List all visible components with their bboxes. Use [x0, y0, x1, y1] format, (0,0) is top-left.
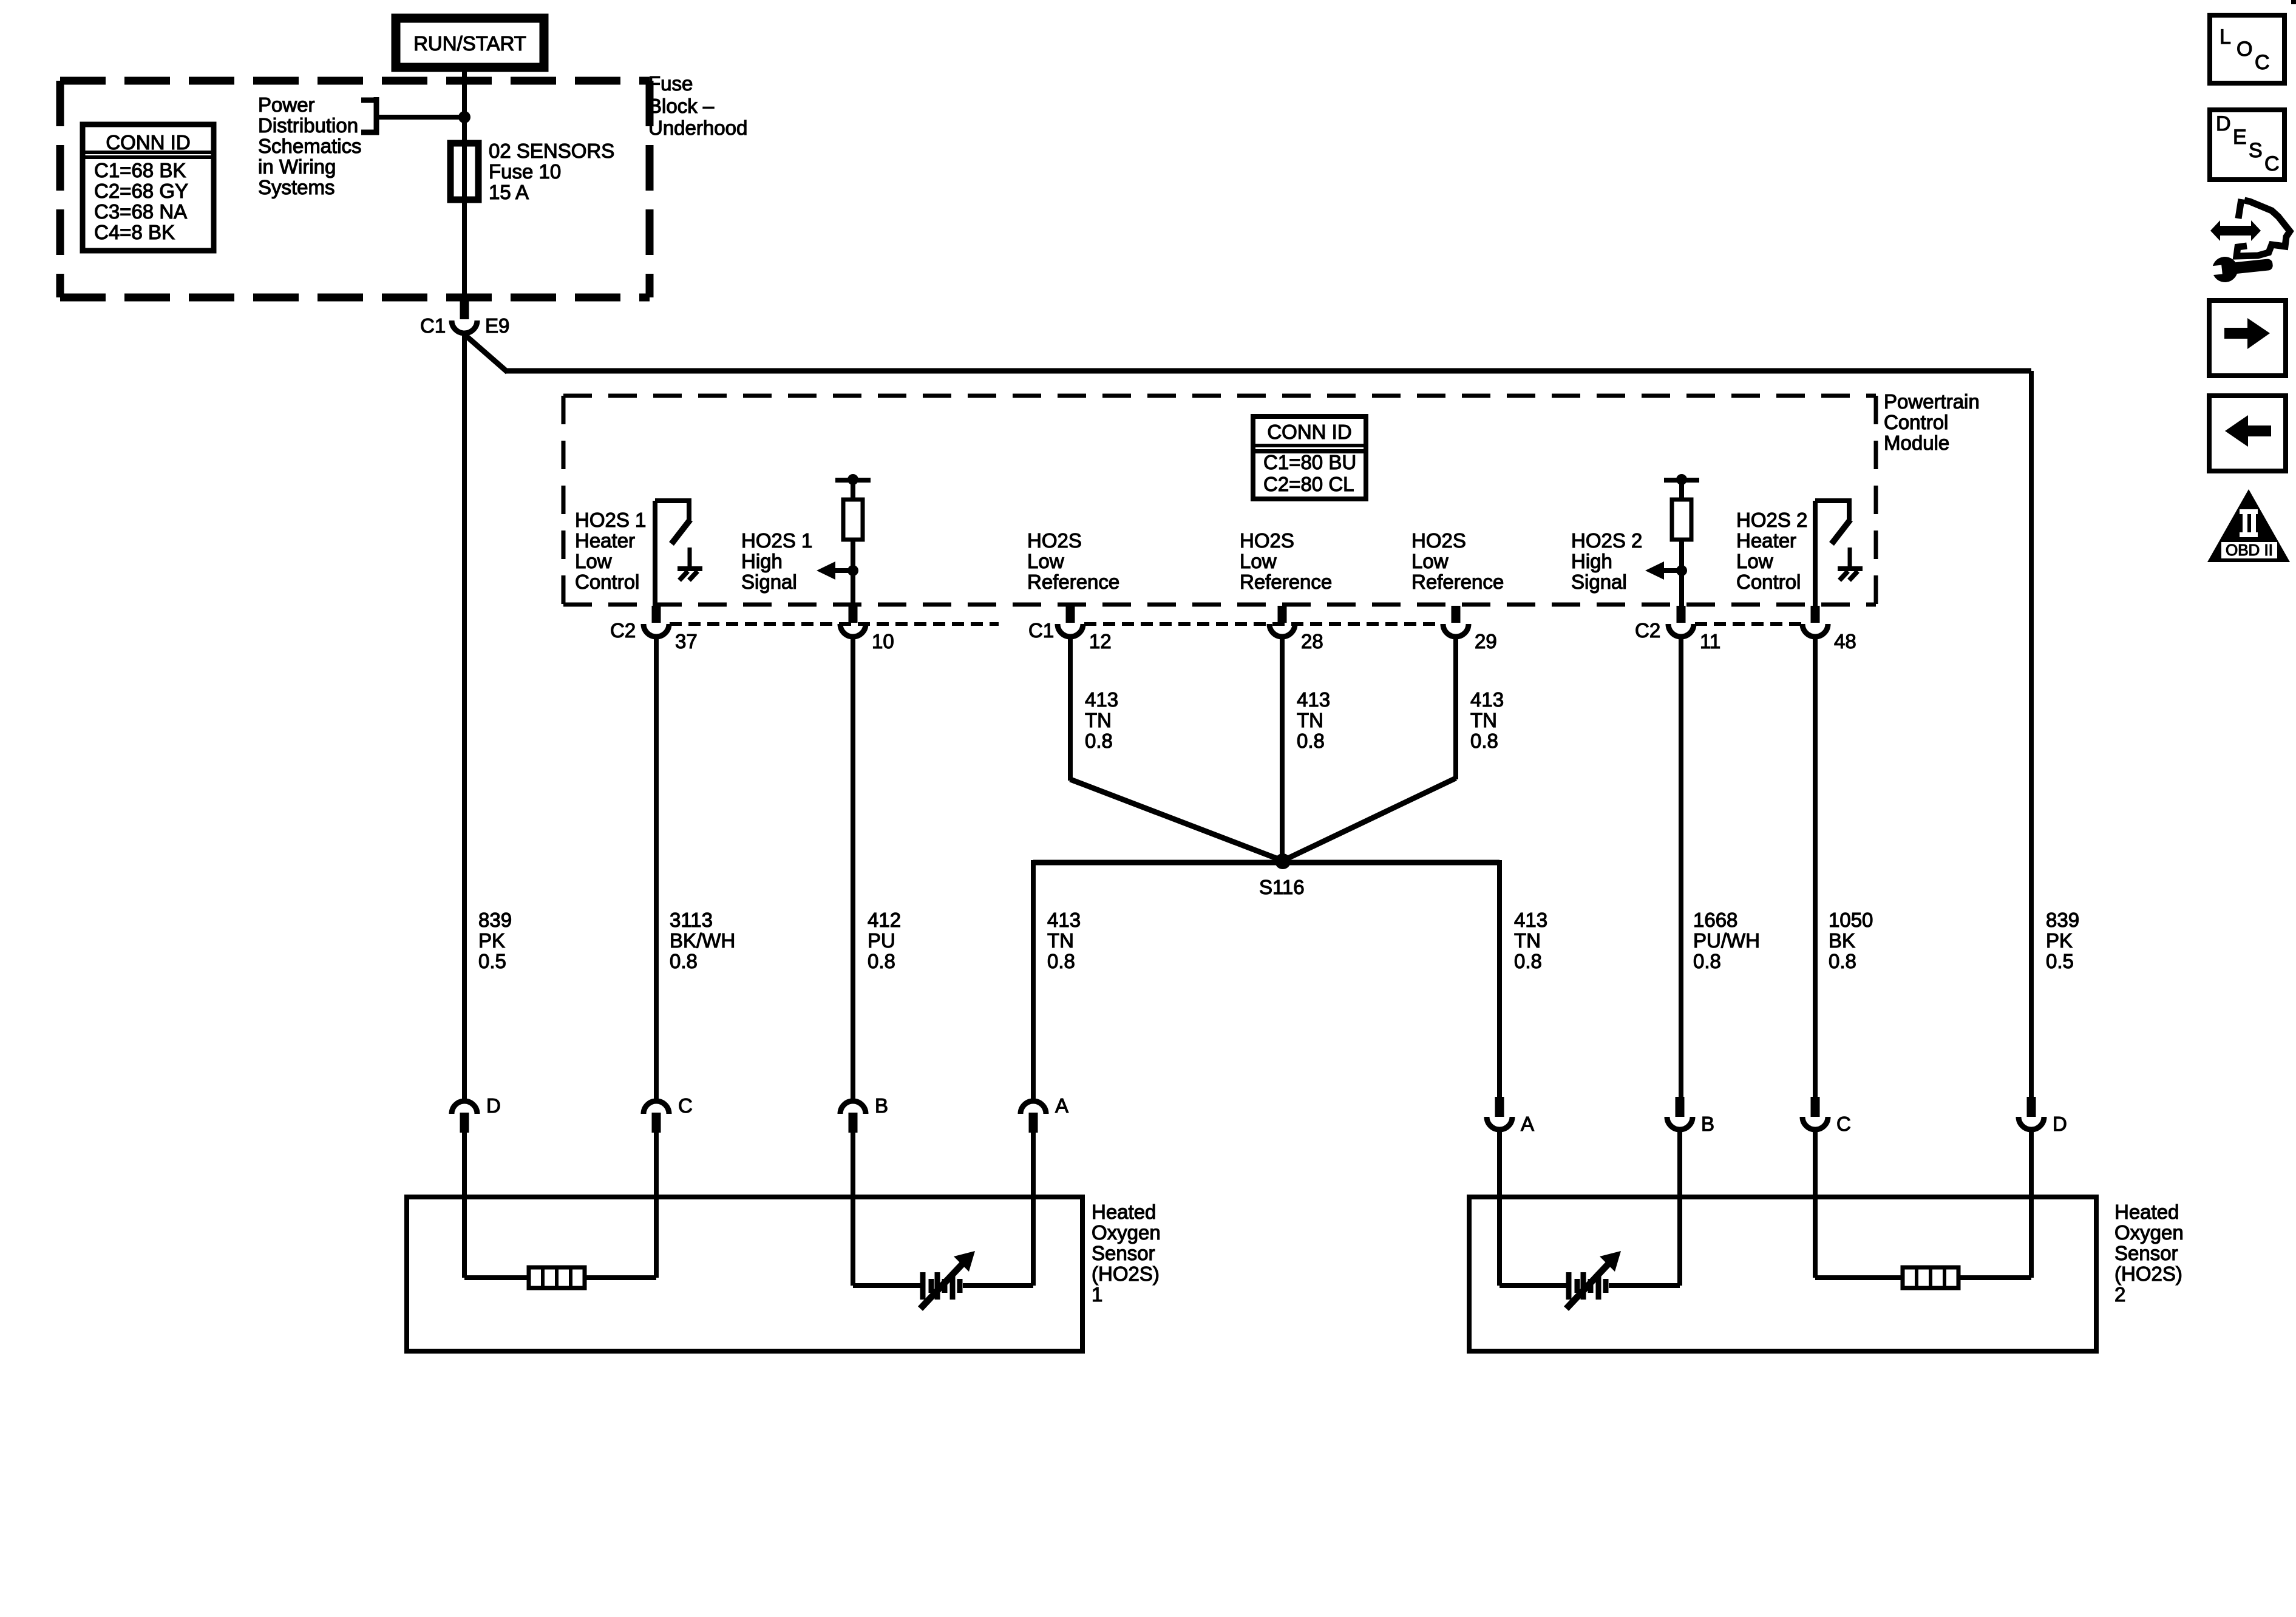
svg-text:Oxygen: Oxygen [1092, 1221, 1161, 1244]
svg-text:3113: 3113 [670, 909, 713, 931]
svg-text:02 SENSORS: 02 SENSORS [489, 140, 614, 162]
svg-text:TN: TN [1297, 709, 1323, 731]
svg-text:Low: Low [575, 550, 612, 572]
svg-text:C2: C2 [610, 619, 636, 642]
svg-text:412: 412 [868, 909, 901, 931]
svg-text:Low: Low [1411, 550, 1449, 572]
svg-text:TN: TN [1514, 929, 1541, 952]
svg-text:HO2S: HO2S [1411, 529, 1466, 552]
svg-text:15 A: 15 A [489, 181, 529, 203]
svg-text:2: 2 [2114, 1283, 2125, 1306]
svg-text:10: 10 [872, 630, 894, 653]
svg-text:High: High [1571, 550, 1612, 572]
svg-text:11: 11 [1700, 630, 1720, 653]
svg-text:L: L [2220, 25, 2231, 49]
svg-text:Reference: Reference [1240, 571, 1332, 593]
svg-text:12: 12 [1089, 630, 1112, 653]
svg-text:Module: Module [1884, 432, 1949, 454]
svg-text:Sensor: Sensor [2114, 1242, 2178, 1264]
svg-text:413: 413 [1297, 688, 1330, 711]
svg-text:Heated: Heated [1092, 1201, 1156, 1223]
svg-text:O: O [2237, 38, 2252, 61]
svg-text:in Wiring: in Wiring [258, 155, 336, 178]
svg-text:HO2S 1: HO2S 1 [741, 529, 812, 552]
svg-text:TN: TN [1047, 929, 1074, 952]
svg-text:HO2S: HO2S [1240, 529, 1294, 552]
svg-text:C: C [1836, 1113, 1851, 1135]
svg-text:1: 1 [1092, 1283, 1102, 1306]
svg-text:839: 839 [478, 909, 512, 931]
svg-text:C: C [2255, 51, 2270, 74]
svg-text:C1=68 BK: C1=68 BK [94, 159, 186, 181]
svg-text:S: S [2249, 139, 2263, 162]
svg-text:CONN ID: CONN ID [106, 131, 190, 154]
svg-text:Low: Low [1240, 550, 1277, 572]
svg-text:C3=68 NA: C3=68 NA [94, 200, 187, 223]
svg-text:0.8: 0.8 [670, 950, 698, 972]
svg-text:413: 413 [1085, 688, 1118, 711]
svg-text:Control: Control [1736, 571, 1801, 593]
svg-text:A: A [1055, 1094, 1068, 1117]
svg-text:0.8: 0.8 [1085, 730, 1113, 752]
svg-text:1668: 1668 [1693, 909, 1737, 931]
svg-text:B: B [1701, 1113, 1714, 1135]
svg-text:D: D [2216, 112, 2231, 135]
svg-text:Low: Low [1027, 550, 1064, 572]
svg-text:Block –: Block – [648, 95, 715, 117]
svg-text:PU/WH: PU/WH [1693, 929, 1760, 952]
svg-text:Fuse 10: Fuse 10 [489, 160, 561, 183]
svg-text:413: 413 [1047, 909, 1081, 931]
svg-text:413: 413 [1514, 909, 1547, 931]
svg-text:Distribution: Distribution [258, 114, 358, 137]
svg-text:C2=68 GY: C2=68 GY [94, 180, 188, 202]
svg-text:0.8: 0.8 [1470, 730, 1498, 752]
svg-text:TN: TN [1470, 709, 1497, 731]
svg-text:Power: Power [258, 93, 315, 116]
svg-text:29: 29 [1475, 630, 1497, 653]
svg-text:(HO2S): (HO2S) [1092, 1263, 1160, 1285]
svg-text:(HO2S): (HO2S) [2114, 1263, 2182, 1285]
svg-text:C2=80 CL: C2=80 CL [1263, 473, 1354, 495]
svg-text:Heater: Heater [1736, 529, 1796, 552]
svg-text:Schematics: Schematics [258, 135, 362, 157]
svg-text:A: A [1521, 1113, 1534, 1135]
svg-text:0.8: 0.8 [1693, 950, 1721, 972]
svg-text:Heated: Heated [2114, 1201, 2179, 1223]
svg-text:839: 839 [2046, 909, 2079, 931]
svg-text:37: 37 [675, 630, 698, 653]
svg-text:C1=80 BU: C1=80 BU [1263, 451, 1356, 473]
svg-text:C4=8 BK: C4=8 BK [94, 221, 175, 243]
svg-text:0.8: 0.8 [1297, 730, 1325, 752]
svg-text:0.8: 0.8 [1047, 950, 1075, 972]
svg-text:HO2S 2: HO2S 2 [1736, 509, 1807, 531]
svg-text:High: High [741, 550, 783, 572]
svg-text:PU: PU [868, 929, 895, 952]
svg-text:CONN ID: CONN ID [1267, 421, 1351, 443]
svg-text:S116: S116 [1259, 876, 1305, 898]
svg-text:Signal: Signal [1571, 571, 1627, 593]
svg-text:OBD II: OBD II [2226, 541, 2273, 559]
svg-text:Systems: Systems [258, 176, 335, 198]
svg-text:E: E [2233, 126, 2247, 149]
svg-text:1050: 1050 [1829, 909, 1873, 931]
svg-text:Signal: Signal [741, 571, 797, 593]
svg-text:HO2S: HO2S [1027, 529, 1082, 552]
svg-text:C1: C1 [1028, 619, 1054, 642]
svg-text:TN: TN [1085, 709, 1112, 731]
svg-text:Reference: Reference [1027, 571, 1119, 593]
svg-text:Low: Low [1736, 550, 1773, 572]
svg-text:HO2S 1: HO2S 1 [575, 509, 646, 531]
svg-text:0.8: 0.8 [1829, 950, 1856, 972]
svg-text:Oxygen: Oxygen [2114, 1221, 2184, 1244]
svg-text:E9: E9 [485, 314, 509, 337]
svg-text:B: B [875, 1094, 888, 1117]
svg-text:BK: BK [1829, 929, 1855, 952]
svg-text:C2: C2 [1635, 619, 1660, 642]
svg-text:0.8: 0.8 [868, 950, 895, 972]
svg-text:RUN/START: RUN/START [413, 32, 526, 55]
svg-text:413: 413 [1470, 688, 1504, 711]
svg-text:0.8: 0.8 [1514, 950, 1542, 972]
svg-text:Underhood: Underhood [648, 117, 747, 139]
svg-text:Control: Control [575, 571, 639, 593]
svg-text:HO2S 2: HO2S 2 [1571, 529, 1642, 552]
svg-text:Fuse: Fuse [648, 72, 693, 95]
svg-text:C: C [678, 1094, 693, 1117]
svg-text:Sensor: Sensor [1092, 1242, 1155, 1264]
svg-text:D: D [2053, 1113, 2067, 1135]
svg-text:28: 28 [1301, 630, 1323, 653]
svg-text:0.5: 0.5 [478, 950, 506, 972]
svg-text:BK/WH: BK/WH [670, 929, 735, 952]
svg-text:D: D [486, 1094, 501, 1117]
svg-text:C1: C1 [420, 314, 446, 337]
svg-text:PK: PK [2046, 929, 2073, 952]
svg-text:48: 48 [1834, 630, 1856, 653]
svg-text:Heater: Heater [575, 529, 635, 552]
svg-text:C: C [2264, 152, 2280, 175]
svg-text:Reference: Reference [1411, 571, 1504, 593]
svg-text:0.5: 0.5 [2046, 950, 2074, 972]
svg-text:PK: PK [478, 929, 505, 952]
svg-text:Powertrain: Powertrain [1884, 390, 1980, 413]
svg-text:Control: Control [1884, 411, 1948, 433]
